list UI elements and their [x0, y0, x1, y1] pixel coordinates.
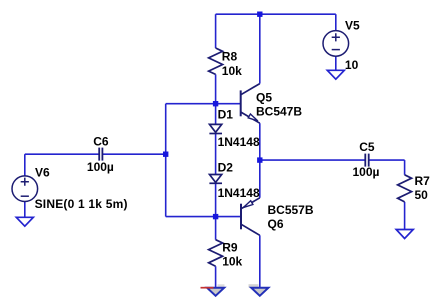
- svg-text:BC557B: BC557B: [268, 203, 314, 217]
- svg-text:1N4148: 1N4148: [218, 135, 260, 149]
- svg-text:10: 10: [345, 58, 359, 72]
- svg-text:Q6: Q6: [268, 217, 284, 231]
- svg-text:Q5: Q5: [256, 91, 272, 105]
- svg-text:V5: V5: [345, 19, 360, 33]
- svg-text:C6: C6: [93, 134, 109, 148]
- svg-text:BC547B: BC547B: [256, 105, 302, 119]
- svg-text:R9: R9: [222, 241, 238, 255]
- svg-text:10k: 10k: [222, 64, 242, 78]
- svg-text:D1: D1: [218, 107, 234, 121]
- svg-text:R7: R7: [415, 174, 431, 188]
- svg-text:D2: D2: [218, 161, 234, 175]
- svg-text:50: 50: [415, 188, 429, 202]
- svg-text:100µ: 100µ: [87, 160, 114, 174]
- svg-text:V6: V6: [35, 166, 50, 180]
- svg-text:C5: C5: [359, 140, 375, 154]
- svg-text:R8: R8: [222, 50, 238, 64]
- svg-text:1N4148: 1N4148: [218, 186, 260, 200]
- svg-text:10k: 10k: [222, 255, 242, 269]
- svg-text:SINE(0 1 1k 5m): SINE(0 1 1k 5m): [35, 197, 128, 211]
- svg-text:100µ: 100µ: [353, 165, 380, 179]
